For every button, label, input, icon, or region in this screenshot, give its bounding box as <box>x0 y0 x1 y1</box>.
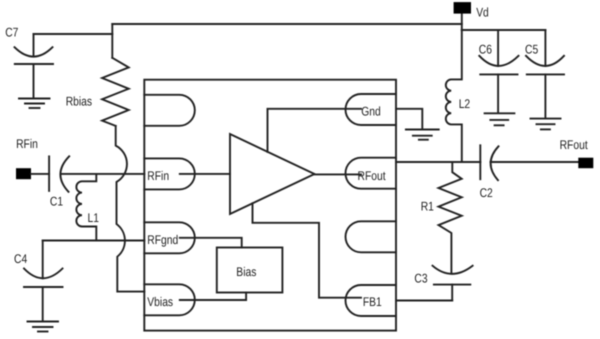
svg-text:C7: C7 <box>5 25 18 39</box>
wire: decoupling rail to C6/C5 <box>462 29 546 31</box>
resistor R1 <box>439 162 462 274</box>
port RFin <box>16 168 31 179</box>
op-amp U1 triangle <box>230 134 315 214</box>
svg-text:C1: C1 <box>50 195 63 209</box>
port RFout <box>578 158 593 169</box>
ground (C4) <box>28 322 59 332</box>
capacitor C3 <box>433 266 473 301</box>
svg-text:C5: C5 <box>525 43 538 57</box>
wire: C1 to RFin pin <box>61 173 145 175</box>
wire: C2 to RFout port <box>491 161 579 163</box>
svg-text:Vbias: Vbias <box>147 295 173 309</box>
wire: RFgnd pin to Bias <box>180 238 242 248</box>
svg-text:C3: C3 <box>414 271 427 285</box>
wire: RFout rail to C2 <box>396 161 480 163</box>
svg-text:L1: L1 <box>88 211 100 225</box>
wire: Vbias pin to Bias <box>180 293 246 301</box>
wire: C7 top lead to junction <box>34 33 113 35</box>
Bias box <box>217 248 283 293</box>
pin 1 (left, unlabeled) <box>144 95 194 126</box>
svg-text:RFin: RFin <box>16 137 38 151</box>
ground (Gnd pin) <box>406 130 439 140</box>
ground (C6) <box>485 113 515 125</box>
wire: RFgnd rail <box>43 240 145 242</box>
capacitor C4 <box>24 241 63 321</box>
svg-text:RFin: RFin <box>147 169 169 183</box>
svg-text:RFout: RFout <box>358 169 387 183</box>
svg-text:R1: R1 <box>421 200 434 214</box>
svg-text:Vd: Vd <box>476 5 489 19</box>
pin 3 (right, unlabeled) <box>346 221 396 252</box>
svg-text:RFgnd: RFgnd <box>147 233 178 247</box>
resistor Rbias <box>102 58 129 126</box>
pin Vbias <box>144 284 194 315</box>
pin RFgnd <box>144 222 194 253</box>
pin FB1 <box>345 285 396 316</box>
svg-text:FB1: FB1 <box>363 295 382 309</box>
capacitor C6 <box>479 30 518 113</box>
ground (C7) <box>19 99 50 109</box>
IC body U1 <box>144 80 396 331</box>
wire: bias feed to Vbias pin (with hops) <box>116 126 145 292</box>
wire: RFin pin to op-amp input <box>180 173 230 175</box>
svg-text:Gnd: Gnd <box>361 105 381 119</box>
wire: Gnd pin to op-amp top <box>268 109 362 152</box>
wire: top Vd rail <box>112 23 462 25</box>
svg-text:C4: C4 <box>14 252 27 266</box>
wire: RFin port to C1 <box>31 173 49 175</box>
capacitor C5 <box>526 30 564 118</box>
pin RFin <box>144 158 194 189</box>
capacitor C1 <box>49 156 69 192</box>
wire: Gnd pin to ground <box>396 109 422 130</box>
inductor L1 <box>76 174 96 241</box>
wire: C3 to FB1 pin <box>396 300 452 302</box>
wire: Vd stem <box>461 13 463 30</box>
svg-text:Bias: Bias <box>236 265 256 279</box>
svg-text:C2: C2 <box>480 186 493 200</box>
pin RFout <box>345 158 396 189</box>
wire: op-amp to FB1 pin <box>253 203 362 297</box>
capacitor C7 <box>15 34 54 98</box>
inductor L2 <box>446 30 462 162</box>
ground (C5) <box>531 119 561 130</box>
svg-text:RFout: RFout <box>560 138 589 152</box>
wire: junction vertical to Rbias <box>111 24 113 58</box>
power port Vd <box>454 2 471 14</box>
svg-text:Rbias: Rbias <box>66 94 92 108</box>
svg-text:L2: L2 <box>459 97 471 111</box>
wire: op-amp output to RFout pin <box>315 173 362 175</box>
svg-text:C6: C6 <box>479 43 492 57</box>
pin Gnd <box>345 94 396 125</box>
capacitor C2 <box>480 145 498 180</box>
